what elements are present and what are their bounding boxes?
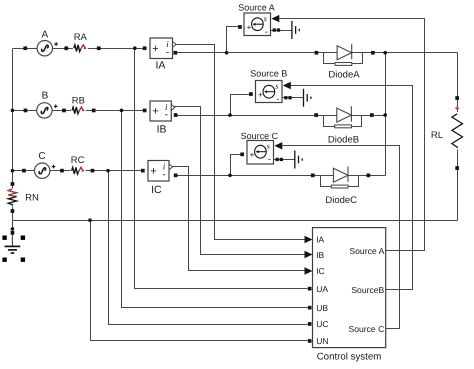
svg-text:RL: RL [431, 130, 443, 141]
svg-text:UB: UB [316, 303, 328, 313]
svg-text:UN: UN [316, 336, 328, 346]
svg-text:DiodeC: DiodeC [325, 195, 357, 206]
svg-text:C: C [38, 151, 45, 162]
svg-text:+: + [258, 90, 263, 99]
svg-text:DiodeA: DiodeA [328, 70, 360, 81]
svg-text:Source B: Source B [250, 68, 287, 78]
svg-text:-: - [162, 169, 165, 180]
svg-text:Source C: Source C [348, 324, 384, 334]
svg-text:-: - [268, 154, 271, 164]
svg-text:Source C: Source C [241, 131, 279, 141]
svg-text:s: s [267, 142, 270, 151]
svg-text:RA: RA [74, 32, 88, 43]
svg-text:IA: IA [316, 235, 324, 245]
svg-text:+: + [247, 23, 252, 32]
svg-text:+: + [150, 165, 156, 177]
svg-text:Source A: Source A [349, 246, 384, 256]
svg-text:RB: RB [72, 96, 85, 107]
svg-text:s: s [264, 14, 267, 23]
svg-text:SourceB: SourceB [351, 285, 384, 295]
svg-text:Source A: Source A [238, 3, 275, 13]
svg-text:Control system: Control system [317, 351, 382, 362]
svg-text:A: A [41, 30, 48, 41]
svg-text:IC: IC [151, 184, 162, 196]
svg-text:DiodeB: DiodeB [328, 134, 359, 145]
svg-text:IC: IC [316, 266, 325, 276]
svg-text:-: - [276, 94, 279, 104]
svg-text:+: + [250, 150, 255, 159]
svg-text:RC: RC [71, 155, 85, 166]
svg-text:-: - [265, 26, 268, 36]
svg-text:+: + [152, 43, 158, 55]
svg-text:+: + [152, 106, 158, 118]
svg-text:-: - [166, 47, 169, 58]
svg-text:UC: UC [316, 319, 328, 329]
svg-text:B: B [42, 90, 49, 101]
svg-text:IA: IA [155, 60, 165, 72]
svg-text:RN: RN [25, 193, 39, 204]
svg-text:-: - [165, 109, 168, 120]
svg-text:UA: UA [316, 284, 328, 294]
svg-text:IB: IB [316, 250, 324, 260]
svg-text:IB: IB [157, 124, 167, 136]
svg-text:s: s [275, 82, 278, 91]
